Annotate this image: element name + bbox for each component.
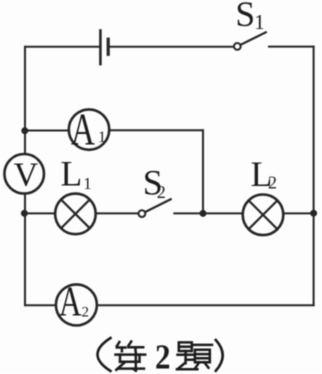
svg-text:2: 2	[268, 173, 277, 193]
svg-text:S: S	[235, 0, 255, 34]
wire A1 branch vertical drop	[202, 130, 204, 213]
caption (第 2 题)	[98, 337, 223, 374]
wire A1 to corner	[109, 129, 203, 131]
caption character di (第)	[116, 342, 146, 371]
node junction left lamp branch	[21, 210, 28, 217]
ammeter A2 circle	[56, 284, 97, 325]
svg-text:L: L	[61, 154, 83, 194]
wire battery to switch S1	[110, 46, 234, 48]
ammeter A1 letter	[71, 103, 106, 154]
node junction left A1	[21, 127, 28, 134]
switch S1 blade	[241, 32, 266, 45]
ammeter A2 letter	[59, 280, 89, 326]
wire right vertical	[313, 47, 315, 306]
wire top-left segment	[25, 46, 99, 48]
wire A1 branch left	[25, 130, 69, 132]
svg-text:2: 2	[155, 337, 171, 374]
wire lamp branch left	[25, 212, 55, 214]
svg-text:2: 2	[82, 304, 90, 320]
wire L2 to right vertical	[283, 212, 313, 214]
switch S2 pivot	[139, 210, 146, 217]
svg-text:V: V	[14, 157, 39, 194]
label S1	[235, 0, 264, 34]
wire switch S1 to top-right corner	[269, 46, 314, 48]
svg-text:1: 1	[98, 129, 106, 146]
label L2	[251, 154, 277, 194]
wire left vertical lower	[24, 193, 26, 305]
lamp L1 circle	[55, 194, 96, 235]
lamp L2 cross	[249, 201, 278, 230]
battery long plate	[99, 31, 102, 65]
svg-text:1: 1	[83, 174, 92, 193]
svg-text:A: A	[59, 280, 82, 326]
caption close paren	[216, 340, 223, 371]
lamp L2 circle	[243, 195, 284, 236]
battery short plate	[107, 39, 110, 54]
ammeter A1 circle	[69, 109, 109, 149]
caption open paren	[98, 338, 111, 371]
label L1	[61, 154, 92, 194]
node junction right lamp branch	[310, 210, 317, 217]
node junction mid lamp branch	[200, 210, 207, 217]
label S2	[143, 162, 166, 202]
wire L1 to switch S2	[96, 212, 139, 214]
caption character ti (题)	[177, 342, 212, 369]
lamp L1 cross	[61, 200, 90, 229]
wire left vertical upper	[24, 47, 26, 155]
wire bottom left	[25, 304, 56, 306]
svg-text:2: 2	[157, 182, 166, 202]
switch S1 pivot	[234, 43, 241, 50]
wire A2 to bottom-right corner	[97, 304, 314, 306]
svg-text:A: A	[71, 103, 95, 154]
svg-text:1: 1	[254, 10, 265, 34]
voltmeter V circle	[4, 154, 44, 194]
wire S2 to L2	[174, 212, 242, 214]
switch S2 blade	[145, 199, 171, 212]
